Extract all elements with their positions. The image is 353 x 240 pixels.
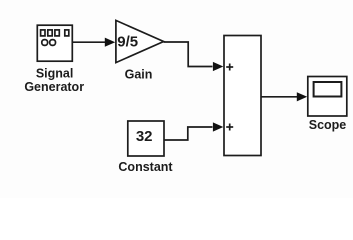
svg-text:Gain: Gain	[125, 67, 153, 81]
block Gain (triangle)	[116, 20, 164, 62]
arrowhead at Sum input 1	[213, 62, 223, 71]
wire SG to Gain	[72, 41, 106, 43]
arrowhead at Sum input 2	[213, 122, 223, 131]
scope screen	[314, 82, 342, 97]
block Scope	[308, 77, 347, 117]
svg-text:Generator: Generator	[24, 80, 84, 94]
icon squares row (0000)	[41, 30, 69, 36]
icon circles row (OO)	[42, 40, 56, 46]
block Constant	[128, 121, 164, 156]
plus sign 1	[226, 64, 233, 71]
svg-text:Scope: Scope	[309, 118, 347, 132]
svg-text:32: 32	[136, 128, 153, 145]
wire Gain to Sum (with jog down)	[164, 42, 213, 67]
arrowhead at Scope input	[297, 92, 307, 101]
block Signal Generator	[37, 25, 72, 61]
arrowhead at Gain input	[105, 38, 115, 47]
wire Constant to Sum (with jog up)	[164, 127, 213, 140]
plus sign 2	[226, 124, 233, 131]
svg-text:Signal: Signal	[36, 66, 74, 80]
block Sum	[224, 36, 261, 156]
wire Sum to Scope	[262, 96, 298, 98]
svg-text:9/5: 9/5	[117, 34, 138, 51]
svg-text:Constant: Constant	[118, 160, 173, 174]
